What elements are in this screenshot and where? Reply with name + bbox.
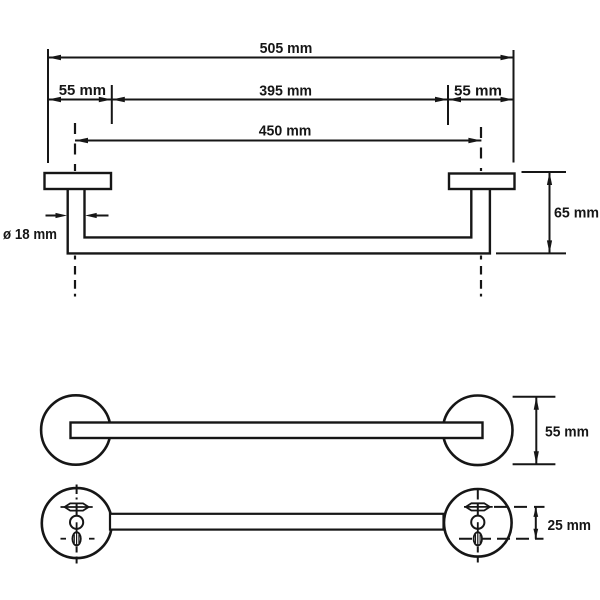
- diameter arrows o18: [46, 213, 109, 218]
- front view: towel bar: [71, 423, 483, 439]
- dimension 65 mm: [496, 172, 566, 253]
- svg-text:395 mm: 395 mm: [259, 83, 312, 100]
- front view: left mount circle: [41, 395, 110, 464]
- dimension line 450 mm: [75, 138, 481, 143]
- svg-text:55 mm: 55 mm: [454, 83, 502, 100]
- svg-text:450 mm: 450 mm: [259, 123, 312, 140]
- right centerline dashed: [480, 127, 482, 297]
- dimension line 505 mm: [48, 55, 514, 60]
- right fixing anchor wing: [464, 503, 493, 510]
- left fixing centerline: [76, 485, 78, 564]
- fixing view: left mount circle: [42, 488, 112, 558]
- svg-text:25 mm: 25 mm: [548, 517, 592, 534]
- dimension 25 mm dashed leaders: [459, 507, 545, 539]
- left extension line: [47, 49, 49, 163]
- svg-text:55 mm: 55 mm: [59, 82, 106, 99]
- left centerline dashed: [74, 123, 76, 297]
- left wall plate: [45, 173, 112, 189]
- right wall plate: [449, 174, 515, 190]
- svg-text:65 mm: 65 mm: [554, 205, 599, 222]
- svg-text:55 mm: 55 mm: [545, 424, 589, 441]
- left fixing screw head: [70, 516, 83, 529]
- svg-text:ø 18 mm: ø 18 mm: [3, 226, 57, 243]
- left fixing plug end: [72, 532, 80, 545]
- right fixing plug end: [474, 532, 482, 545]
- dimension line 55/395/55 mm: [48, 85, 514, 125]
- right fixing screw head: [471, 516, 484, 529]
- dimension 55 mm (front): [513, 397, 556, 465]
- svg-text:505 mm: 505 mm: [260, 40, 313, 57]
- front view: right mount circle: [443, 396, 513, 466]
- dimension 25 mm: [533, 507, 538, 539]
- fixing view: right mount circle: [444, 489, 512, 557]
- left fixing anchor wing: [61, 503, 93, 510]
- towel bar body (top view): [68, 190, 490, 254]
- right extension line: [513, 50, 515, 163]
- right fixing centerline: [477, 490, 479, 563]
- fixing view: towel bar: [110, 514, 444, 530]
- left fixing horizontal dashes: [61, 538, 95, 540]
